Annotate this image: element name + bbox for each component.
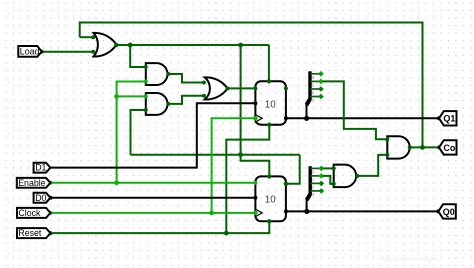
pin register R2 west enable: [253, 181, 257, 185]
wire net A branch to AND2 input: [131, 110, 146, 155]
pin AND1 output: [166, 72, 170, 76]
pin register R1 west enable: [253, 86, 257, 90]
pin register R2 north: [267, 174, 271, 178]
wire AND4 output to AND3 input: [357, 155, 387, 176]
svg-text:Enable: Enable: [18, 178, 45, 188]
wire Q1 net: [286, 117, 439, 119]
wire splitter2 bit0 to AND4: [323, 167, 334, 169]
wire splitter2 bit1 to AND4: [323, 176, 334, 184]
pin D0 output: [49, 196, 53, 200]
pin Enable output: [49, 181, 53, 185]
wire net A long vertical: [240, 45, 242, 155]
svg-text:Q0: Q0: [443, 207, 455, 217]
junction Enable net riser: [114, 180, 119, 185]
pin AND1 input A: [144, 65, 148, 69]
pin OR1 input A: [91, 35, 95, 39]
wire Q1 to splitter1 origin: [306, 104, 308, 118]
output pin Q0: [438, 204, 456, 218]
pin OR2 output: [226, 86, 230, 90]
wire D1 net: [46, 103, 256, 167]
wire net A branch to AND1 input: [130, 45, 146, 67]
pin OR2 input A: [202, 81, 206, 85]
pin Co input: [437, 145, 441, 149]
pin register R2 south: [267, 219, 271, 223]
AND gate AND4: [334, 165, 356, 188]
input pin Clock: [17, 208, 50, 218]
pin register R2 Q output: [284, 209, 288, 213]
pin register R1 clock: [253, 116, 258, 121]
pin Load output: [40, 50, 44, 54]
wire Clock net horizontal: [51, 212, 256, 214]
input pin Reset: [17, 228, 50, 238]
register R2: [255, 176, 286, 221]
wire Q0 to splitter2 origin: [306, 200, 308, 211]
input pin Enable: [17, 178, 51, 188]
wire Enable riser: [117, 82, 146, 183]
svg-text:Clock: Clock: [18, 208, 41, 218]
pin D1 output: [44, 166, 48, 170]
wire splitter1 bit to AND3 input: [323, 81, 388, 139]
pin register R2 east upper: [284, 182, 288, 186]
splitter S1: [307, 71, 324, 105]
svg-text:10: 10: [265, 194, 276, 205]
junction Enable net AND2 branch: [114, 94, 119, 99]
AND gate AND1: [146, 63, 168, 85]
wire AND3 output to Co: [410, 146, 439, 148]
pin register R1 Q output: [284, 116, 288, 120]
svg-text:Reset: Reset: [18, 228, 42, 238]
wire Clock riser to register1: [212, 118, 256, 213]
pin register R2 clock: [253, 211, 258, 216]
wire Q0 net: [286, 210, 438, 212]
pin AND3 input A: [385, 137, 389, 141]
wire net A jog to register2 north: [241, 155, 270, 177]
pin Reset output: [49, 231, 53, 235]
pin register R1 D input: [253, 101, 257, 105]
output pin Q1: [439, 111, 457, 125]
pin Q1 input: [437, 116, 441, 120]
pin AND1 input B: [144, 80, 148, 84]
pin OR1 input B: [91, 50, 95, 54]
junction net A at AND1 branch: [128, 43, 133, 48]
input pin D1: [34, 163, 51, 173]
pin AND3 output: [408, 145, 412, 149]
junction Clock net riser: [209, 211, 214, 216]
svg-text:Load: Load: [20, 47, 40, 57]
wire AND1 output to OR2 input: [168, 74, 204, 83]
junction net A at long vertical: [238, 43, 243, 48]
junction Co net: [420, 145, 425, 150]
pin Q0 input: [436, 209, 440, 213]
wire D0 net: [51, 197, 256, 199]
wire OR1 output net A horizontal: [116, 44, 269, 46]
pin AND4 input A: [332, 166, 336, 170]
pin AND2 input B: [144, 108, 148, 112]
AND gate AND3: [387, 136, 409, 158]
pin OR1 output: [114, 43, 118, 47]
junction Q1 net at splitter S1: [304, 116, 309, 121]
wire AND2 output to OR2 input: [168, 96, 204, 104]
pin register R2 D input: [253, 196, 257, 200]
input pin Load: [18, 46, 42, 57]
wire Enable net horizontal: [51, 182, 256, 184]
pin Clock output: [49, 211, 53, 215]
junction Q0 net at splitter S2: [304, 209, 309, 214]
wire net A lower horizontal: [131, 154, 300, 156]
input pin D0: [34, 193, 51, 203]
svg-text:Q1: Q1: [443, 114, 455, 124]
pin OR2 input B: [202, 94, 206, 98]
wire net A branch to register1 north: [268, 45, 270, 81]
junction Reset net: [224, 231, 229, 236]
svg-text:10: 10: [265, 100, 276, 111]
svg-text:D1: D1: [35, 163, 46, 173]
svg-text:tiny-screenshot-gen: tiny-screenshot-gen: [383, 257, 438, 264]
wire OR2 output to register1 west: [228, 87, 256, 89]
pin AND4 input B: [332, 182, 336, 186]
svg-text:Co: Co: [443, 143, 455, 153]
pin register R1 east carry: [284, 86, 288, 90]
OR gate OR2: [205, 77, 228, 99]
AND gate AND2: [146, 93, 168, 115]
splitter S2: [307, 166, 325, 201]
wire Enable branch to AND2: [117, 95, 146, 97]
pin AND2 input A: [144, 94, 148, 98]
svg-text:D0: D0: [35, 193, 46, 203]
wire Load net: [42, 51, 93, 53]
wire top feedback net horizontal: [80, 23, 423, 148]
register R1: [255, 81, 286, 124]
wire Reset riser to register1 south: [226, 125, 269, 233]
pin AND2 output: [166, 102, 170, 106]
pin register R1 north: [267, 79, 271, 83]
pin register R1 south: [267, 123, 271, 127]
pin AND4 output: [355, 174, 359, 178]
wire net A branch to register2 east port: [286, 155, 300, 184]
junction net A lower: [238, 152, 243, 157]
wire Reset net horizontal: [51, 221, 270, 233]
OR gate OR1: [94, 33, 117, 57]
pin AND3 input B: [385, 153, 389, 157]
output pin Co: [439, 140, 457, 154]
